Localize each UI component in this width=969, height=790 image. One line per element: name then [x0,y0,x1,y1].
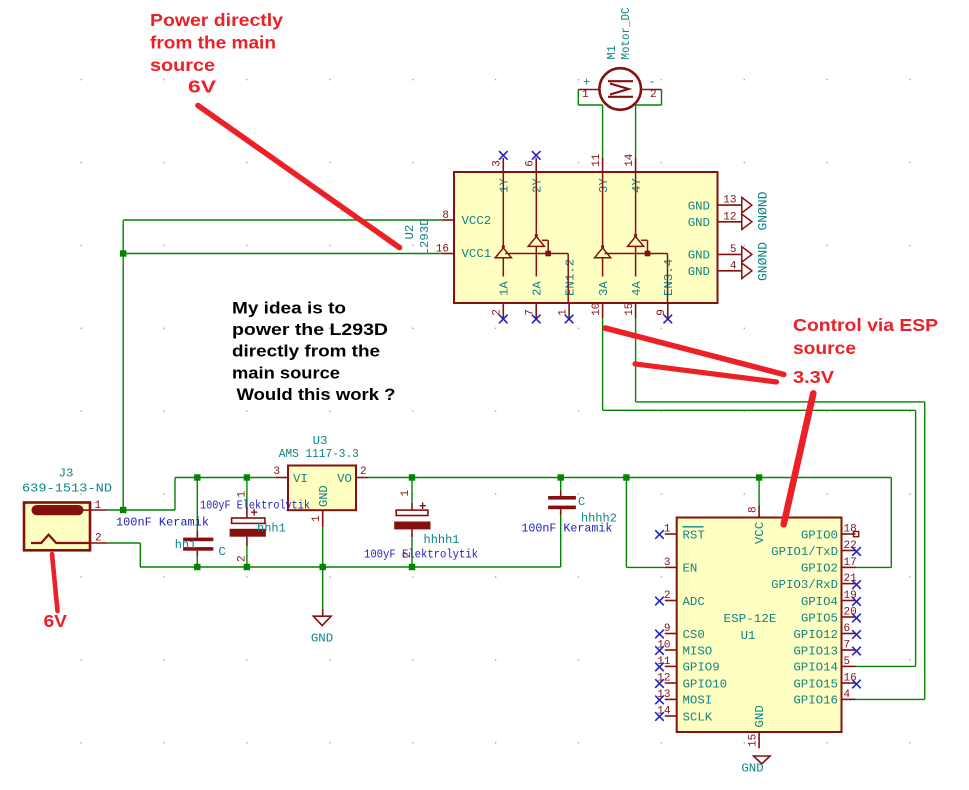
svg-text:8: 8 [747,506,759,513]
svg-text:8: 8 [442,210,449,222]
svg-text:AMS 1117-3.3: AMS 1117-3.3 [279,447,359,461]
svg-text:GPIO0: GPIO0 [801,528,838,542]
svg-text:EN3.4: EN3.4 [662,259,676,296]
svg-text:U2: U2 [403,225,417,240]
svg-text:ESP-12E: ESP-12E [724,612,777,626]
svg-text:2: 2 [236,555,248,562]
svg-text:source: source [793,338,856,358]
svg-text:4: 4 [844,689,851,701]
svg-text:My idea is to: My idea is to [232,298,346,317]
svg-text:VCC: VCC [753,522,767,544]
svg-text:3A: 3A [597,281,611,296]
svg-text:4: 4 [730,260,737,272]
svg-text:GND: GND [688,265,710,279]
svg-text:3: 3 [664,557,671,569]
svg-text:15: 15 [624,303,636,316]
svg-text:100yF Elektrolytik: 100yF Elektrolytik [200,499,310,513]
svg-text:U1: U1 [741,629,756,643]
svg-text:6: 6 [524,160,536,167]
svg-text:3: 3 [492,160,504,167]
svg-text:1: 1 [582,89,589,101]
svg-text:source: source [150,55,215,75]
svg-text:4A: 4A [630,281,644,296]
svg-text:1A: 1A [498,281,512,296]
svg-text:VCC2: VCC2 [462,214,492,228]
svg-text:GND: GND [688,216,710,230]
svg-text:hhhh1: hhhh1 [424,533,460,547]
svg-text:MOSI: MOSI [683,694,713,708]
svg-text:GND: GND [688,249,710,263]
svg-text:MISO: MISO [683,644,713,658]
svg-text:Motor_DC: Motor_DC [619,8,633,60]
svg-text:GPIO4: GPIO4 [801,595,838,609]
svg-text:GPIO1/TxD: GPIO1/TxD [771,545,838,559]
svg-text:3.3V: 3.3V [793,367,834,387]
svg-text:4Y: 4Y [630,178,644,193]
svg-text:GPIO2: GPIO2 [801,562,838,576]
svg-text:7: 7 [844,640,851,652]
svg-text:GPIO10: GPIO10 [683,677,728,691]
svg-text:GND: GND [753,705,767,727]
svg-text:2: 2 [95,533,102,545]
svg-text:power the L293D: power the L293D [232,320,388,339]
svg-text:639-1513-ND: 639-1513-ND [22,482,112,496]
svg-text:RST: RST [683,528,705,542]
svg-text:GPIO14: GPIO14 [793,661,838,675]
svg-text:hh1: hh1 [175,538,197,552]
svg-text:Would this work ?: Would this work ? [237,385,396,404]
svg-text:2: 2 [650,89,657,101]
svg-text:VO: VO [337,472,352,486]
svg-text:100nF Keramik: 100nF Keramik [116,516,209,530]
svg-text:EN1.2: EN1.2 [563,259,577,296]
svg-text:GPIO16: GPIO16 [793,694,838,708]
svg-text:GNØND: GNØND [755,242,770,281]
svg-text:+: + [583,76,590,90]
svg-text:2: 2 [664,590,671,602]
svg-text:1: 1 [664,524,671,536]
svg-text:M1: M1 [605,45,619,59]
svg-text:L293D: L293D [418,218,432,255]
svg-text:17: 17 [844,557,857,569]
svg-text:5: 5 [730,244,737,256]
svg-text:U3: U3 [313,434,328,448]
svg-text:GPIO5: GPIO5 [801,611,838,625]
svg-text:ADC: ADC [683,595,705,609]
svg-text:C: C [578,495,585,509]
svg-text:100yF Elektrolytik: 100yF Elektrolytik [364,548,478,562]
svg-text:9: 9 [656,309,668,316]
svg-text:GPIO9: GPIO9 [683,661,720,675]
svg-text:14: 14 [624,153,636,167]
svg-text:3Y: 3Y [597,178,611,193]
svg-text:1Y: 1Y [498,178,512,193]
svg-text:C: C [218,545,225,559]
svg-text:Power directly: Power directly [150,10,283,30]
svg-text:11: 11 [591,153,603,167]
svg-text:6V: 6V [188,77,216,97]
svg-text:15: 15 [747,734,759,747]
svg-text:VCC1: VCC1 [462,247,492,261]
svg-text:12: 12 [723,211,736,223]
svg-text:GND: GND [317,485,331,507]
svg-text:1: 1 [557,309,569,316]
svg-text:3: 3 [273,466,280,478]
svg-text:2: 2 [360,466,367,478]
svg-text:10: 10 [591,303,603,316]
svg-text:18: 18 [844,524,857,536]
svg-text:hhh1: hhh1 [257,522,286,536]
svg-text:+: + [419,499,426,513]
svg-text:6V: 6V [44,611,68,631]
svg-text:1: 1 [400,490,412,497]
svg-text:J3: J3 [59,467,74,481]
svg-text:main source: main source [232,363,340,382]
svg-text:GND: GND [688,199,710,213]
svg-text:-: - [649,75,656,89]
svg-text:100nF Keramik: 100nF Keramik [521,522,612,536]
svg-text:1: 1 [95,500,102,512]
svg-text:from the main: from the main [150,33,276,53]
svg-text:16: 16 [436,244,449,256]
svg-text:SCLK: SCLK [683,710,713,724]
svg-text:7: 7 [524,309,536,316]
svg-text:5: 5 [844,656,851,668]
svg-text:VI: VI [293,472,308,486]
svg-text:GNØND: GNØND [755,191,770,230]
svg-text:CS0: CS0 [683,628,705,642]
svg-text:13: 13 [723,195,736,207]
svg-text:GPIO15: GPIO15 [793,677,838,691]
svg-text:GPIO12: GPIO12 [793,628,838,642]
svg-text:2Y: 2Y [530,178,544,193]
svg-text:directly from the: directly from the [232,342,380,361]
svg-text:Control via ESP: Control via ESP [793,315,938,335]
svg-text:1: 1 [311,515,323,522]
svg-text:GND: GND [741,762,763,776]
svg-text:9: 9 [664,623,671,635]
svg-text:GPIO13: GPIO13 [793,644,838,658]
svg-text:1: 1 [236,491,248,498]
svg-text:6: 6 [844,623,851,635]
svg-text:2: 2 [492,309,504,316]
svg-text:EN: EN [683,562,698,576]
svg-text:GND: GND [311,632,333,646]
svg-text:2A: 2A [530,281,544,296]
svg-text:GPIO3/RxD: GPIO3/RxD [771,578,838,592]
